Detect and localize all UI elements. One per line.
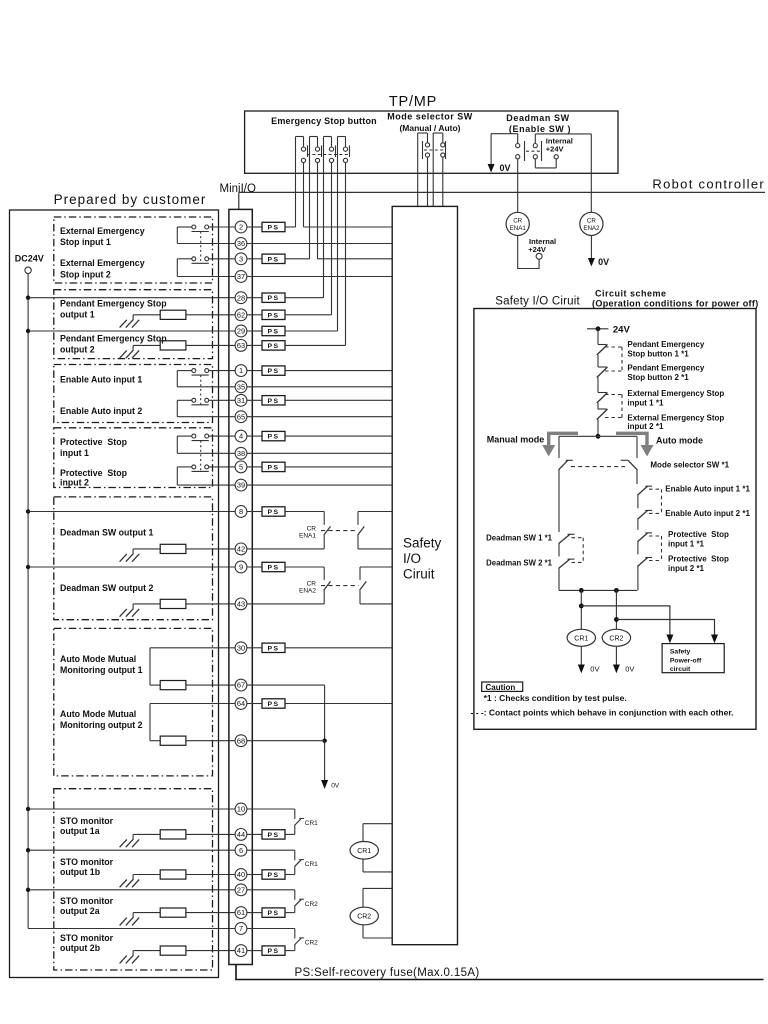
svg-text:External Emergency: External Emergency bbox=[60, 258, 145, 268]
svg-text:+24V: +24V bbox=[546, 145, 564, 154]
svg-text:PS: PS bbox=[267, 368, 279, 375]
svg-text:output 1: output 1 bbox=[60, 310, 95, 320]
svg-text:input 1: input 1 bbox=[60, 448, 89, 458]
svg-text:Pendant Emergency: Pendant Emergency bbox=[627, 364, 704, 373]
svg-text:Enable Auto input 1: Enable Auto input 1 bbox=[60, 374, 142, 384]
svg-text:PS: PS bbox=[267, 565, 279, 572]
svg-text:8: 8 bbox=[239, 507, 243, 516]
svg-text:30: 30 bbox=[237, 643, 245, 652]
svg-text:input 2 *1: input 2 *1 bbox=[668, 564, 705, 573]
svg-text:10: 10 bbox=[237, 805, 245, 814]
svg-text:External Emergency Stop: External Emergency Stop bbox=[627, 389, 724, 398]
svg-text:35: 35 bbox=[237, 382, 245, 391]
svg-text:input 2 *1: input 2 *1 bbox=[627, 422, 664, 431]
svg-text:43: 43 bbox=[237, 600, 245, 609]
svg-text:Pendant Emergency Stop: Pendant Emergency Stop bbox=[60, 299, 167, 309]
svg-text:output 2a: output 2a bbox=[60, 906, 100, 916]
svg-text:Enable Auto input 1 *1: Enable Auto input 1 *1 bbox=[665, 485, 750, 494]
svg-text:Protective Stop: Protective Stop bbox=[60, 437, 128, 447]
svg-text:Stop input 2: Stop input 2 bbox=[60, 269, 111, 279]
svg-text:output 1b: output 1b bbox=[60, 867, 101, 877]
svg-text:PS: PS bbox=[267, 343, 279, 350]
svg-text:2: 2 bbox=[239, 223, 243, 232]
svg-text:Stop input 1: Stop input 1 bbox=[60, 237, 111, 247]
svg-text:ENA2: ENA2 bbox=[583, 225, 600, 232]
svg-text:STO monitor: STO monitor bbox=[60, 816, 114, 826]
svg-text:PS: PS bbox=[267, 434, 279, 441]
svg-text:PS: PS bbox=[267, 872, 279, 879]
svg-text:0V: 0V bbox=[500, 163, 511, 173]
svg-text:Deadman SW output 2: Deadman SW output 2 bbox=[60, 583, 153, 593]
svg-text:9: 9 bbox=[239, 563, 243, 572]
svg-text:PS: PS bbox=[267, 295, 279, 302]
svg-text:Mode selector SW: Mode selector SW bbox=[387, 112, 473, 122]
svg-text:CR: CR bbox=[587, 218, 596, 225]
svg-text:0V: 0V bbox=[625, 665, 634, 674]
svg-text:Deadman SW 1 *1: Deadman SW 1 *1 bbox=[486, 534, 553, 543]
svg-text:24V: 24V bbox=[613, 324, 631, 335]
svg-text:0V: 0V bbox=[331, 783, 340, 790]
svg-text:Safety: Safety bbox=[670, 649, 691, 656]
svg-text:1: 1 bbox=[239, 366, 243, 375]
svg-text:7: 7 bbox=[239, 924, 243, 933]
svg-text:- - -: Contact points which be: - - -: Contact points which behave in co… bbox=[471, 707, 734, 717]
svg-text:PS: PS bbox=[267, 701, 279, 708]
svg-text:PS: PS bbox=[267, 509, 279, 516]
svg-text:Circuit scheme: Circuit scheme bbox=[595, 289, 667, 299]
svg-text:(Operation conditions for powe: (Operation conditions for power off) bbox=[592, 299, 759, 309]
svg-text:Deadman SW output 1: Deadman SW output 1 bbox=[60, 528, 153, 538]
svg-text:41: 41 bbox=[237, 946, 245, 955]
svg-text:ENA2: ENA2 bbox=[299, 588, 316, 595]
svg-text:PS: PS bbox=[267, 398, 279, 405]
svg-text:CR: CR bbox=[307, 581, 317, 588]
svg-text:Pendant Emergency: Pendant Emergency bbox=[627, 340, 704, 349]
svg-text:output 2: output 2 bbox=[60, 345, 95, 355]
svg-text:PS:Self-recovery fuse(Max.0.15: PS:Self-recovery fuse(Max.0.15A) bbox=[295, 967, 480, 979]
svg-text:Mode selector SW *1: Mode selector SW *1 bbox=[650, 461, 729, 470]
svg-text:*1 : Checks condition by test: *1 : Checks condition by test pulse. bbox=[484, 693, 627, 703]
svg-text:31: 31 bbox=[237, 396, 245, 405]
svg-text:output 1a: output 1a bbox=[60, 826, 100, 836]
svg-text:CR: CR bbox=[513, 218, 522, 225]
svg-text:Deadman SW 2 *1: Deadman SW 2 *1 bbox=[486, 558, 553, 567]
svg-text:PS: PS bbox=[267, 464, 279, 471]
svg-text:Protective Stop: Protective Stop bbox=[668, 555, 729, 564]
svg-text:PS: PS bbox=[267, 832, 279, 839]
svg-text:Monitoring output 1: Monitoring output 1 bbox=[60, 665, 143, 675]
svg-text:40: 40 bbox=[237, 870, 245, 879]
svg-text:output 2b: output 2b bbox=[60, 943, 101, 953]
svg-text:(Manual / Auto): (Manual / Auto) bbox=[399, 123, 460, 133]
svg-text:I/O: I/O bbox=[403, 551, 421, 566]
svg-text:68: 68 bbox=[237, 736, 245, 745]
svg-text:Auto Mode Mutual: Auto Mode Mutual bbox=[60, 709, 136, 719]
svg-text:Auto Mode Mutual: Auto Mode Mutual bbox=[60, 654, 136, 664]
svg-text:0V: 0V bbox=[590, 665, 599, 674]
svg-text:Enable Auto input 2: Enable Auto input 2 bbox=[60, 406, 142, 416]
svg-text:5: 5 bbox=[239, 463, 243, 472]
svg-text:STO monitor: STO monitor bbox=[60, 896, 114, 906]
svg-text:Auto mode: Auto mode bbox=[656, 436, 703, 446]
svg-text:Stop button 1 *1: Stop button 1 *1 bbox=[627, 349, 689, 358]
svg-text:External Emergency: External Emergency bbox=[60, 226, 145, 236]
svg-text:3: 3 bbox=[239, 254, 243, 263]
svg-text:CR1: CR1 bbox=[305, 861, 318, 868]
svg-text:STO monitor: STO monitor bbox=[60, 857, 114, 867]
svg-text:29: 29 bbox=[237, 327, 245, 336]
svg-text:Emergency Stop button: Emergency Stop button bbox=[271, 116, 377, 126]
svg-text:Pendant Emergency Stop: Pendant Emergency Stop bbox=[60, 334, 167, 344]
svg-text:Manual mode: Manual mode bbox=[487, 435, 545, 445]
svg-text:38: 38 bbox=[237, 449, 245, 458]
svg-text:Safety I/O Ciruit: Safety I/O Ciruit bbox=[495, 296, 580, 308]
svg-text:4: 4 bbox=[239, 432, 243, 441]
svg-text:36: 36 bbox=[237, 239, 245, 248]
svg-text:input 1 *1: input 1 *1 bbox=[668, 539, 705, 548]
svg-text:27: 27 bbox=[237, 885, 245, 894]
svg-text:Robot controller: Robot controller bbox=[652, 177, 765, 192]
svg-text:28: 28 bbox=[237, 293, 245, 302]
svg-text:CR2: CR2 bbox=[305, 901, 318, 908]
svg-text:CR: CR bbox=[307, 526, 317, 533]
svg-text:Safety: Safety bbox=[403, 536, 442, 551]
svg-text:62: 62 bbox=[237, 310, 245, 319]
svg-text:CR2: CR2 bbox=[357, 914, 371, 921]
svg-text:input 1 *1: input 1 *1 bbox=[627, 398, 664, 407]
svg-text:Enable Auto input 2 *1: Enable Auto input 2 *1 bbox=[665, 509, 750, 518]
svg-text:Prepared by customer: Prepared by customer bbox=[54, 192, 207, 207]
svg-text:CR2: CR2 bbox=[305, 940, 318, 947]
svg-text:Protective Stop: Protective Stop bbox=[668, 530, 729, 539]
svg-text:PS: PS bbox=[267, 645, 279, 652]
svg-text:CR1: CR1 bbox=[305, 820, 318, 827]
svg-text:(Enable SW ): (Enable SW ) bbox=[509, 124, 571, 134]
svg-text:63: 63 bbox=[237, 341, 245, 350]
svg-text:CR1: CR1 bbox=[357, 848, 371, 855]
svg-text:0V: 0V bbox=[598, 257, 609, 267]
svg-text:Stop button 2 *1: Stop button 2 *1 bbox=[627, 373, 689, 382]
svg-text:ENA1: ENA1 bbox=[299, 533, 316, 540]
svg-text:CR1: CR1 bbox=[574, 635, 588, 642]
svg-text:61: 61 bbox=[237, 908, 245, 917]
svg-text:PS: PS bbox=[267, 312, 279, 319]
svg-text:ENA1: ENA1 bbox=[510, 225, 527, 232]
svg-text:PS: PS bbox=[267, 256, 279, 263]
svg-text:PS: PS bbox=[267, 948, 279, 955]
svg-text:MiniI/O: MiniI/O bbox=[220, 183, 256, 195]
svg-text:Monitoring output 2: Monitoring output 2 bbox=[60, 720, 143, 730]
svg-text:STO monitor: STO monitor bbox=[60, 933, 114, 943]
svg-text:Power-off: Power-off bbox=[670, 658, 702, 665]
svg-text:circuit: circuit bbox=[670, 666, 691, 673]
svg-text:Deadman SW: Deadman SW bbox=[506, 113, 570, 123]
svg-text:+24V: +24V bbox=[528, 245, 546, 254]
svg-text:input 2: input 2 bbox=[60, 478, 89, 488]
svg-text:Ciruit: Ciruit bbox=[403, 567, 435, 582]
svg-text:PS: PS bbox=[267, 225, 279, 232]
svg-text:PS: PS bbox=[267, 329, 279, 336]
svg-text:37: 37 bbox=[237, 272, 245, 281]
svg-text:67: 67 bbox=[237, 681, 245, 690]
svg-text:DC24V: DC24V bbox=[15, 254, 44, 264]
svg-text:44: 44 bbox=[237, 830, 245, 839]
svg-text:39: 39 bbox=[237, 481, 245, 490]
svg-text:Caution: Caution bbox=[486, 683, 516, 692]
svg-text:6: 6 bbox=[239, 846, 243, 855]
svg-text:CR2: CR2 bbox=[609, 635, 623, 642]
svg-text:64: 64 bbox=[237, 699, 245, 708]
svg-text:65: 65 bbox=[237, 412, 245, 421]
svg-text:Protective Stop: Protective Stop bbox=[60, 468, 128, 478]
svg-text:PS: PS bbox=[267, 910, 279, 917]
svg-text:42: 42 bbox=[237, 545, 245, 554]
svg-text:TP/MP: TP/MP bbox=[389, 94, 437, 110]
